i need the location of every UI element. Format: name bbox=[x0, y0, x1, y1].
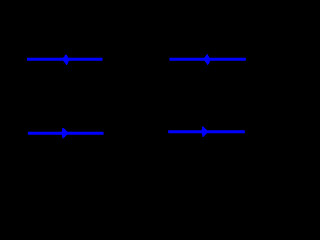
arrowhead bottom-right (points right) bbox=[201, 127, 208, 137]
wire bottom-left bbox=[28, 132, 104, 135]
arrowhead top-left (points left) bbox=[62, 54, 69, 65]
arrowhead bottom-left (points right) bbox=[62, 128, 69, 139]
wire top-right bbox=[169, 58, 245, 61]
wire bottom-right bbox=[168, 130, 245, 133]
wire top-left bbox=[27, 58, 103, 61]
arrowhead top-right (points left) bbox=[203, 54, 210, 65]
